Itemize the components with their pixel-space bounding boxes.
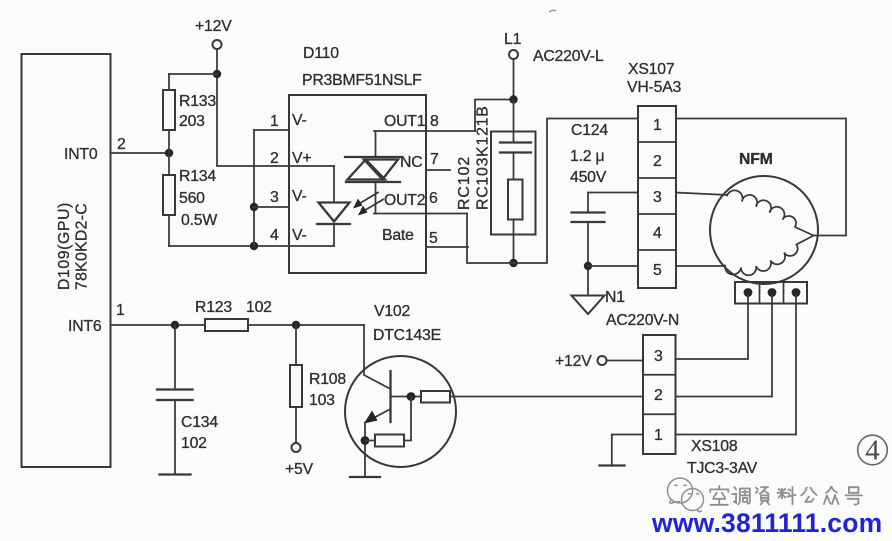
wire XS107 pin3 to C124 <box>588 192 638 194</box>
svg-text:103: 103 <box>309 392 335 409</box>
svg-text:4: 4 <box>270 227 279 244</box>
terminal L1 <box>504 31 522 59</box>
triac inside D110 <box>345 131 400 214</box>
svg-text:1.2 μ: 1.2 μ <box>570 148 604 165</box>
pin7 NC stub <box>426 169 450 171</box>
capacitor C124 1.2u 450V <box>570 122 608 296</box>
LED inside D110 <box>289 166 350 246</box>
svg-text:OUT1: OUT1 <box>384 113 426 130</box>
svg-text:2: 2 <box>117 136 126 153</box>
svg-text:INT6: INT6 <box>68 318 102 335</box>
node C134 junction <box>171 321 179 329</box>
svg-text:+5V: +5V <box>285 461 314 478</box>
base bar <box>389 371 391 422</box>
wire motor tap2 to XS108 pin2 <box>676 295 773 397</box>
svg-text:4: 4 <box>653 225 662 242</box>
node pin3 tie <box>250 203 258 211</box>
svg-text:5: 5 <box>429 230 438 247</box>
svg-text:1: 1 <box>116 302 125 319</box>
svg-text:D110: D110 <box>303 45 339 62</box>
svg-text:NFM: NFM <box>739 151 773 168</box>
emitter lead down <box>364 423 366 477</box>
wire R123 to R108 node <box>248 324 364 326</box>
wire pin3 <box>254 206 289 208</box>
pin labels left V- V+ V- V- <box>292 112 311 244</box>
svg-text:102: 102 <box>181 435 207 452</box>
svg-text:8: 8 <box>430 113 439 130</box>
svg-text:0.5W: 0.5W <box>181 212 217 229</box>
svg-text:V-: V- <box>292 227 307 244</box>
wire base input <box>364 325 391 389</box>
wire XS108 pin1 to ground <box>612 435 643 465</box>
motor terminal strip <box>735 282 807 304</box>
pin numbers 1 2 3 4 <box>270 113 279 244</box>
wire +12V branch to R133 <box>169 73 217 75</box>
wire pin6 OUT2 internal+external <box>374 213 467 215</box>
wire XS107 pin3 to motor coil <box>676 193 727 196</box>
svg-text:N1: N1 <box>605 289 625 306</box>
wire R134 bottom to D110 pin4 <box>169 245 289 247</box>
svg-text:NC: NC <box>400 154 422 171</box>
svg-text:OUT2: OUT2 <box>384 192 425 209</box>
op-coupler D110 PR3BMF51NSLF box <box>289 45 426 273</box>
svg-text:V+: V+ <box>292 150 311 167</box>
svg-text:XS108: XS108 <box>691 438 738 455</box>
svg-text:1: 1 <box>270 113 279 130</box>
wire pin1 <box>254 129 289 131</box>
motor NFM <box>710 151 818 284</box>
svg-text:2: 2 <box>653 153 662 170</box>
motor winding coil <box>725 190 814 275</box>
svg-text:VH-5A3: VH-5A3 <box>627 79 682 96</box>
internal resistor base-emitter <box>365 397 411 447</box>
svg-text:V-: V- <box>292 112 307 129</box>
+5V terminal <box>285 443 314 478</box>
svg-text:PR3BMF51NSLF: PR3BMF51NSLF <box>302 72 422 89</box>
circled number 4 <box>858 435 888 467</box>
watermark text "kongtiao ziliao gongzhonghao" <box>710 486 862 505</box>
svg-text:XS107: XS107 <box>628 61 674 78</box>
stray mark <box>549 10 556 12</box>
svg-text:RC102: RC102 <box>456 156 473 210</box>
wire pin6 down and along to XS107 pin1 riser <box>467 119 638 264</box>
ground N1 triangle <box>572 296 605 315</box>
IC D109 (GPU) box <box>22 54 111 467</box>
emitter with arrow <box>367 409 391 422</box>
svg-text:C124: C124 <box>571 122 608 139</box>
svg-text:RC103K121B: RC103K121B <box>475 105 492 210</box>
resistor R123 102 <box>195 299 272 331</box>
wire +12V down to V+ pin2 <box>217 49 289 166</box>
watermark logo <box>668 478 704 512</box>
wire XS107 pin1 loop to motor tap <box>676 119 846 236</box>
internal resistor (collector side) <box>421 391 450 403</box>
wire pin8 up to L1 node <box>475 100 514 132</box>
svg-text:4: 4 <box>865 435 880 467</box>
+12V terminal at XS108 <box>555 353 643 370</box>
svg-text:78K0KD2-C: 78K0KD2-C <box>74 203 91 290</box>
resistor R133 203 <box>163 74 216 153</box>
node N1 junction <box>584 262 592 270</box>
wire L1 down <box>513 59 515 100</box>
capacitor C134 102 <box>157 325 218 475</box>
svg-text:560: 560 <box>179 190 205 207</box>
pin numbers 8 7 6 5 <box>429 113 439 247</box>
svg-text:DTC143E: DTC143E <box>373 327 441 344</box>
svg-text:1: 1 <box>654 427 663 444</box>
svg-text:5: 5 <box>653 262 662 279</box>
node R108 junction <box>292 321 300 329</box>
svg-text:www.3811111.com: www.3811111.com <box>651 508 882 536</box>
node INT0 junction <box>165 149 173 157</box>
svg-text:R133: R133 <box>179 93 216 110</box>
pin labels right OUT1 NC OUT2 Bate <box>382 113 426 244</box>
svg-text:INT0: INT0 <box>64 146 98 163</box>
svg-text:1: 1 <box>653 117 662 134</box>
svg-text:203: 203 <box>179 113 205 130</box>
svg-text:D109(GPU): D109(GPU) <box>56 202 73 290</box>
svg-text:3: 3 <box>654 348 663 365</box>
pin5 Bate stub <box>426 246 468 248</box>
resistor R108 103 <box>290 325 346 443</box>
wire XS107 pin5 to motor coil <box>676 265 725 267</box>
wire INT0 to node <box>111 152 170 154</box>
wire XS107 pin5 to node <box>588 265 638 267</box>
node +12V junction <box>213 70 221 78</box>
light arrows toward LED <box>353 193 383 216</box>
svg-text:2: 2 <box>654 387 663 404</box>
svg-text:6: 6 <box>429 190 438 207</box>
svg-text:V-: V- <box>292 188 307 205</box>
wire pin8 OUT1 internal+external <box>374 130 475 132</box>
svg-text:+12V: +12V <box>555 353 592 370</box>
svg-text:Bate: Bate <box>382 227 414 244</box>
svg-text:2: 2 <box>270 150 279 167</box>
connector XS108 TJC3-3AV <box>643 335 758 477</box>
svg-text:7: 7 <box>430 151 439 168</box>
svg-text:3: 3 <box>270 189 279 206</box>
svg-text:R123: R123 <box>195 299 232 316</box>
node pin4 tie <box>250 242 258 250</box>
transistor V102 DTC143E <box>345 303 456 467</box>
+12V terminal (top) <box>195 18 232 49</box>
resistor R134 560 0.5W <box>163 153 217 246</box>
ground at emitter <box>350 476 380 478</box>
node L1/RC junction <box>509 95 517 103</box>
svg-text:C134: C134 <box>181 414 218 431</box>
wire INT6 from node to R123 <box>111 324 206 326</box>
svg-text:V102: V102 <box>374 303 410 320</box>
svg-text:TJC3-3AV: TJC3-3AV <box>687 460 758 477</box>
wire collector to XS108 pin2 <box>450 396 643 398</box>
ground at XS108 pin1 <box>600 464 625 466</box>
connector XS107 VH-5A3 <box>627 61 682 288</box>
svg-text:AC220V-N: AC220V-N <box>606 312 679 329</box>
svg-text:450V: 450V <box>570 169 607 186</box>
svg-text:3: 3 <box>653 189 662 206</box>
svg-text:R134: R134 <box>179 168 216 185</box>
wire motor tap3 to XS108 pin1 <box>676 295 797 435</box>
svg-text:AC220V-L: AC220V-L <box>533 48 604 65</box>
collector wire with node <box>391 396 422 398</box>
svg-text:R108: R108 <box>309 371 346 388</box>
node RC bottom junction <box>509 259 517 267</box>
svg-text:L1: L1 <box>504 31 522 48</box>
svg-text:+12V: +12V <box>195 18 232 35</box>
svg-text:102: 102 <box>246 299 272 316</box>
wire V- tie vertical (pins 1,3,4) <box>253 130 255 246</box>
wire motor tap1 to XS108 pin3 <box>676 295 749 359</box>
RC102 RC103K121B snubber <box>456 100 536 264</box>
